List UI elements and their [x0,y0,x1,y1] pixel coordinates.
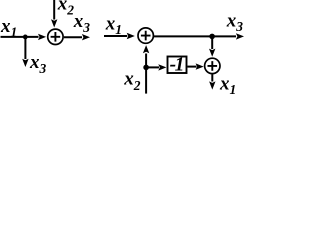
arrowhead output x1 [209,81,215,89]
arrowhead down into summer U1 [51,19,57,27]
gain block -1 [168,57,187,74]
wire: branch down from node A [24,37,26,59]
summing junction U2 [138,28,153,43]
junction dot C on x2 wire [143,65,149,71]
wire: summer U3 output down [211,75,213,82]
arrowhead into summer U3 [196,63,204,69]
svg-text:-1: -1 [170,55,183,76]
wire: x2 bottom input (vertical) [145,54,147,94]
arrowhead output x3 [236,33,244,39]
wire: x2 top input [53,0,55,20]
arrowhead into -1 block [158,64,166,70]
wire: node C to -1 block [146,66,159,68]
arrowhead into summer U2 [127,33,135,39]
wire: x1 input to summing junction [1,36,39,38]
wire: -1 block to summer U3 [188,66,197,68]
wire: summer U1 output [64,36,82,38]
arrowhead into summer U1 [38,34,46,40]
summing junction U1 [48,29,63,44]
junction dot A [23,35,28,40]
arrowhead down to x3 [22,59,28,67]
summing junction U3 [205,58,220,73]
wire: summer U2 output to x3 arrow [154,35,236,37]
arrowhead into summer U3 top [209,49,215,57]
arrowhead up into summer U2 bottom [143,45,149,53]
wire: node B down to summer U3 [211,36,213,49]
junction dot B on output wire [209,34,215,40]
wire: x1 input to summer U2 [104,35,127,37]
arrowhead output x3 [82,34,90,40]
